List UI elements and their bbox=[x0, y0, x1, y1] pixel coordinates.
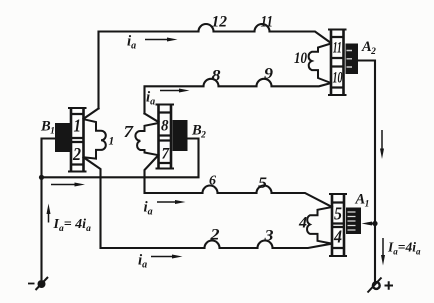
svg-text:10: 10 bbox=[333, 70, 343, 87]
svg-text:Ia=4ia: Ia=4ia bbox=[387, 240, 421, 257]
svg-text:1: 1 bbox=[109, 136, 115, 148]
svg-text:6: 6 bbox=[209, 174, 216, 189]
svg-text:10: 10 bbox=[294, 50, 307, 67]
svg-text:3: 3 bbox=[263, 228, 273, 245]
svg-text:8: 8 bbox=[161, 118, 169, 135]
svg-text:2: 2 bbox=[209, 227, 219, 244]
svg-text:9: 9 bbox=[264, 66, 273, 83]
svg-text:11: 11 bbox=[261, 14, 274, 31]
svg-text:8: 8 bbox=[212, 68, 221, 85]
svg-text:11: 11 bbox=[333, 40, 342, 57]
svg-text:5: 5 bbox=[258, 175, 267, 192]
svg-text:2: 2 bbox=[72, 144, 81, 164]
svg-text:5: 5 bbox=[334, 204, 342, 224]
svg-text:4: 4 bbox=[333, 227, 342, 247]
svg-text:Ia= 4ia: Ia= 4ia bbox=[53, 217, 92, 234]
svg-text:4: 4 bbox=[298, 215, 307, 232]
svg-text:1: 1 bbox=[74, 116, 82, 136]
svg-text:7: 7 bbox=[162, 146, 171, 163]
svg-text:12: 12 bbox=[212, 14, 228, 31]
